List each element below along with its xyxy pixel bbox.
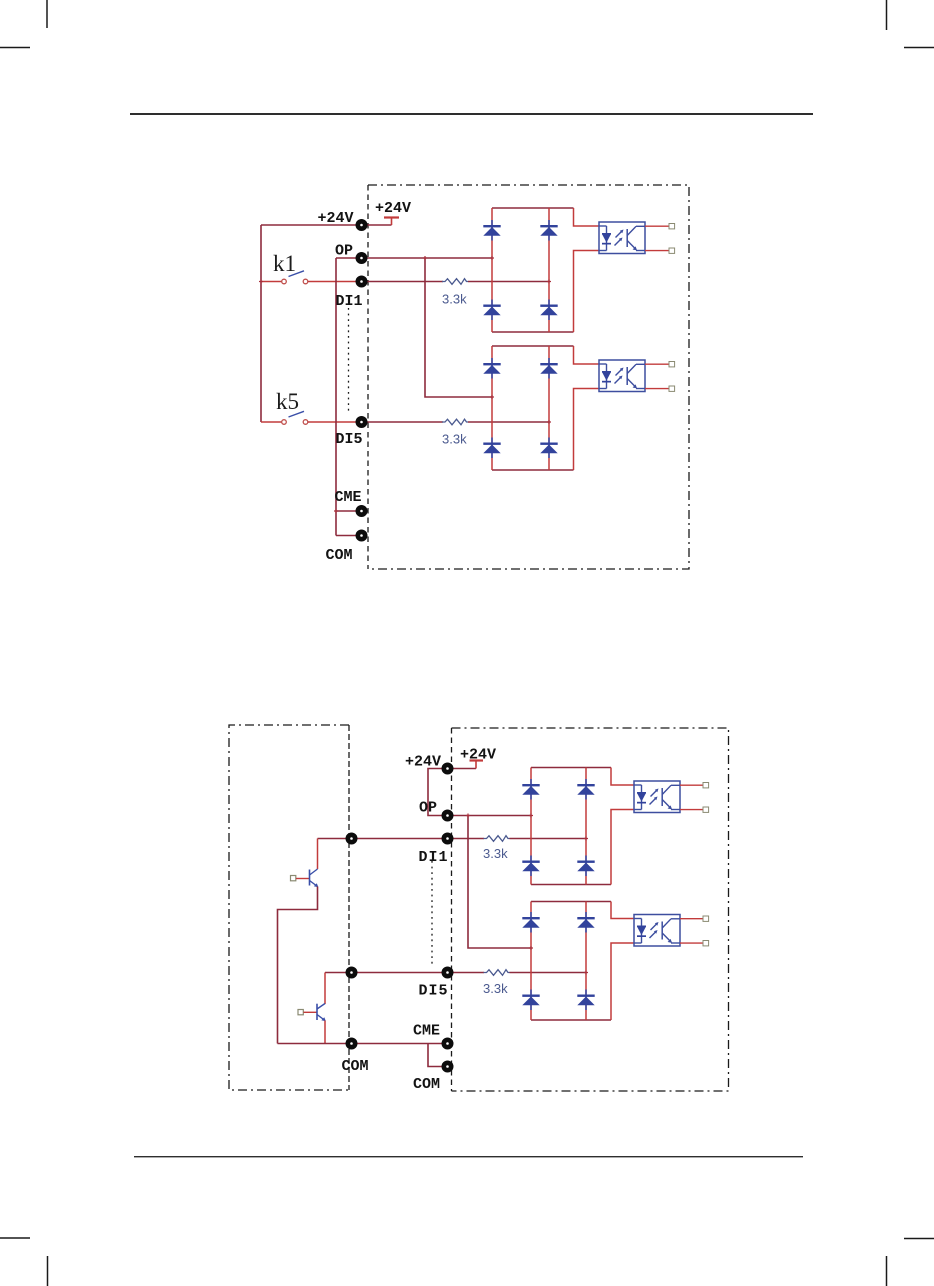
wire opto2 output top, diagram 1 bbox=[645, 363, 669, 365]
optocoupler U2, diagram 1 bbox=[599, 360, 645, 392]
terminal DI5, diagram 1 bbox=[356, 416, 368, 428]
terminal COM, diagram 1 bbox=[356, 530, 368, 542]
wire bridge2 to opto2 bottom, diagram 2 bbox=[611, 943, 634, 1020]
svg-text:+24V: +24V bbox=[460, 747, 496, 764]
wire COM stub, diagram 1 bbox=[336, 535, 362, 537]
wire k1 to DI1, diagram 1 bbox=[308, 281, 362, 283]
optocoupler U1, diagram 1 bbox=[599, 222, 645, 254]
pad opto1 bottom, diagram 2 bbox=[703, 807, 709, 812]
wire opto2 output bottom, diagram 1 bbox=[645, 388, 669, 390]
wire rail to k1, diagram 1 bbox=[261, 281, 282, 283]
pad opto2 bottom, diagram 2 bbox=[703, 941, 709, 946]
node DI5 left box, diagram 2 bbox=[346, 967, 358, 979]
transistor Q1 collector wire, diagram 2 bbox=[317, 839, 319, 870]
wire DI1 row, diagram 1 bbox=[362, 281, 444, 283]
diode bridge2 top-right, diagram 1 bbox=[540, 358, 557, 379]
diode bridge2 top-left, diagram 1 bbox=[483, 358, 500, 379]
diode bridge1 bottom-left, diagram 1 bbox=[483, 300, 500, 321]
transistor Q1, diagram 2 bbox=[291, 869, 319, 887]
wire bridge1 to opto1 bottom, diagram 1 bbox=[574, 251, 600, 333]
svg-text:3.3k: 3.3k bbox=[483, 846, 508, 861]
power +24V symbol, diagram 2 bbox=[470, 761, 484, 769]
wire resistor to bridge, diagram 2 bbox=[510, 838, 587, 840]
terminal strip dashed line, diagram 2 bbox=[451, 728, 453, 1091]
wire +24V to OP jumper, diagram 2 bbox=[428, 769, 448, 816]
svg-text:k1: k1 bbox=[273, 251, 296, 276]
diode bridge2 bottom-left, diagram 2 bbox=[522, 990, 539, 1011]
wire OP row, diagram 2 bbox=[448, 815, 532, 817]
transistor Q2 emitter wire, diagram 2 bbox=[324, 1021, 326, 1044]
top header rule bbox=[130, 113, 813, 115]
svg-text:COM: COM bbox=[413, 1076, 440, 1093]
crop mark bottom-left vertical bbox=[47, 1256, 49, 1286]
wire left rail, diagram 1 bbox=[260, 225, 262, 422]
bridge rectifier 1, diagram 1 bbox=[492, 208, 574, 332]
terminal +24V, diagram 1 bbox=[356, 219, 368, 231]
power +24V symbol, diagram 1 bbox=[384, 218, 399, 226]
diode bridge2 top-right, diagram 2 bbox=[577, 912, 594, 933]
drive board border box (dash-dot), diagram 1 bbox=[368, 185, 689, 569]
drive board border box, diagram 2 bbox=[452, 728, 729, 1091]
pad opto2 bottom, diagram 1 bbox=[669, 386, 675, 391]
wire +24V row left, diagram 1 bbox=[261, 224, 362, 226]
terminal OP, diagram 2 bbox=[442, 810, 454, 822]
bottom footer rule bbox=[134, 1156, 803, 1157]
transistor Q2, diagram 2 bbox=[298, 1004, 326, 1022]
svg-text:DI5: DI5 bbox=[419, 983, 449, 1000]
resistor 3.3k DI5, diagram 2 bbox=[484, 970, 510, 976]
wire opto2 output bottom, diagram 2 bbox=[680, 942, 703, 944]
wire bridge1 to opto1 top, diagram 2 bbox=[611, 768, 634, 786]
wire OP branch to bridge 2, diagram 2 bbox=[468, 816, 531, 949]
external controller border box, diagram 2 bbox=[229, 725, 349, 1090]
svg-text:CME: CME bbox=[335, 489, 362, 506]
svg-text:+24V: +24V bbox=[318, 210, 354, 227]
pad opto2 top, diagram 2 bbox=[703, 916, 709, 921]
wire bridge2 to opto2 top, diagram 1 bbox=[574, 346, 600, 364]
wire DI5 row, diagram 2 bbox=[325, 972, 484, 974]
wire DI1 row, diagram 2 bbox=[318, 838, 485, 840]
terminal DI1, diagram 2 bbox=[442, 833, 454, 845]
crop mark top-left vertical bbox=[46, 0, 48, 28]
switch k1 bbox=[282, 271, 308, 284]
node DI1 left box, diagram 2 bbox=[346, 833, 358, 845]
terminal COM, diagram 2 bbox=[442, 1061, 454, 1073]
transistor Q1 emitter wire, diagram 2 bbox=[278, 887, 318, 1044]
diode bridge1 bottom-right, diagram 2 bbox=[577, 856, 594, 877]
wire CME stub, diagram 1 bbox=[336, 510, 362, 512]
diode bridge2 bottom-left, diagram 1 bbox=[483, 438, 500, 459]
diode bridge1 top-right, diagram 2 bbox=[577, 779, 594, 800]
terminal strip dashed line, diagram 1 bbox=[367, 185, 369, 569]
optocoupler U1, diagram 2 bbox=[634, 781, 680, 813]
terminal DI5, diagram 2 bbox=[442, 967, 454, 979]
wire opto1 output bottom, diagram 1 bbox=[645, 250, 669, 252]
wire k5 to DI5, diagram 1 bbox=[308, 421, 362, 423]
crop mark bottom-right vertical bbox=[886, 1256, 888, 1286]
wire +24V to power stem, diagram 2 bbox=[448, 768, 477, 770]
svg-text:DI1: DI1 bbox=[419, 849, 449, 866]
crop mark top-right horizontal bbox=[904, 47, 934, 49]
resistor 3.3k DI1, diagram 1 bbox=[442, 279, 468, 285]
dotted continuation DI1..DI5 diagram 2 bbox=[431, 861, 433, 967]
svg-text:COM: COM bbox=[342, 1058, 369, 1075]
transistor Q2 collector wire, diagram 2 bbox=[324, 973, 326, 1005]
svg-text:3.3k: 3.3k bbox=[483, 981, 508, 996]
terminal CME, diagram 2 bbox=[442, 1038, 454, 1050]
svg-text:DI5: DI5 bbox=[336, 431, 363, 448]
terminal CME, diagram 1 bbox=[356, 505, 368, 517]
wire bridge2 to opto2 bottom, diagram 1 bbox=[574, 389, 600, 471]
optocoupler U2, diagram 2 bbox=[634, 915, 680, 947]
external controller right dashed edge, diagram 2 bbox=[348, 725, 350, 1090]
wire CME to COM jumper, diagram 2 bbox=[428, 1044, 448, 1067]
wire opto1 output top, diagram 1 bbox=[645, 225, 669, 227]
wire bridge2 to opto2 top, diagram 2 bbox=[611, 902, 634, 919]
node COM left box, diagram 2 bbox=[346, 1038, 358, 1050]
pad opto2 top, diagram 1 bbox=[669, 362, 675, 367]
wire DI5 row, diagram 1 bbox=[362, 421, 444, 423]
wire opto1 output top, diagram 2 bbox=[680, 784, 703, 786]
svg-text:k5: k5 bbox=[276, 389, 299, 414]
diode bridge2 top-left, diagram 2 bbox=[522, 912, 539, 933]
wire opto2 output top, diagram 2 bbox=[680, 918, 703, 920]
diode bridge1 top-left, diagram 1 bbox=[483, 220, 500, 241]
junction marks diagram 1 bbox=[259, 256, 551, 513]
svg-text:OP: OP bbox=[335, 243, 353, 260]
terminal OP, diagram 1 bbox=[356, 252, 368, 264]
svg-text:OP: OP bbox=[419, 800, 437, 817]
svg-text:3.3k: 3.3k bbox=[442, 292, 467, 307]
pad opto1 top, diagram 1 bbox=[669, 224, 675, 229]
dotted continuation DI1..DI5 diagram 1 bbox=[348, 308, 350, 414]
wire OP branch to bridge 2, diagram 1 bbox=[425, 258, 492, 397]
diode bridge1 bottom-left, diagram 2 bbox=[522, 856, 539, 877]
bridge rectifier 2, diagram 1 bbox=[492, 346, 574, 470]
wire +24V to power stem, diagram 1 bbox=[362, 224, 392, 226]
svg-text:+24V: +24V bbox=[375, 200, 411, 217]
bridge rectifier 1, diagram 2 bbox=[531, 768, 611, 885]
terminal +24V, diagram 2 bbox=[442, 763, 454, 775]
svg-text:COM: COM bbox=[326, 547, 353, 564]
wire rail to k5, diagram 1 bbox=[261, 421, 282, 423]
wire bridge1 to opto1 bottom, diagram 2 bbox=[611, 810, 634, 885]
wire OP row, diagram 1 bbox=[336, 257, 492, 259]
wire OP jumper down to CME/COM, diagram 1 bbox=[335, 258, 337, 536]
wire COM rail, diagram 2 bbox=[278, 1043, 448, 1045]
wire opto1 output bottom, diagram 2 bbox=[680, 809, 703, 811]
bridge rectifier 2, diagram 2 bbox=[531, 902, 611, 1021]
wire resistor to bridge 2, diagram 1 bbox=[468, 421, 549, 423]
switch k5 bbox=[282, 411, 308, 424]
wire resistor to bridge, diagram 1 bbox=[468, 281, 549, 283]
wire bridge1 to opto1 top, diagram 1 bbox=[574, 208, 600, 226]
wire resistor to bridge 2, diagram 2 bbox=[510, 972, 587, 974]
junction marks diagram 2 bbox=[466, 814, 588, 975]
svg-text:+24V: +24V bbox=[405, 754, 441, 771]
resistor 3.3k DI1, diagram 2 bbox=[484, 836, 510, 842]
diode bridge1 top-left, diagram 2 bbox=[522, 779, 539, 800]
crop mark bottom-right horizontal bbox=[904, 1238, 934, 1240]
terminal DI1, diagram 1 bbox=[356, 276, 368, 288]
pad opto1 bottom, diagram 1 bbox=[669, 248, 675, 253]
diode bridge2 bottom-right, diagram 2 bbox=[577, 990, 594, 1011]
svg-text:CME: CME bbox=[413, 1023, 440, 1040]
crop mark bottom-left horizontal bbox=[0, 1237, 30, 1239]
crop mark top-left horizontal bbox=[0, 47, 30, 49]
resistor 3.3k DI5, diagram 1 bbox=[442, 419, 468, 425]
crop mark top-right vertical bbox=[886, 0, 888, 30]
pad opto1 top, diagram 2 bbox=[703, 783, 709, 788]
diode bridge1 bottom-right, diagram 1 bbox=[540, 300, 557, 321]
diode bridge1 top-right, diagram 1 bbox=[540, 220, 557, 241]
svg-text:DI1: DI1 bbox=[336, 293, 363, 310]
svg-text:3.3k: 3.3k bbox=[442, 432, 467, 447]
diode bridge2 bottom-right, diagram 1 bbox=[540, 438, 557, 459]
